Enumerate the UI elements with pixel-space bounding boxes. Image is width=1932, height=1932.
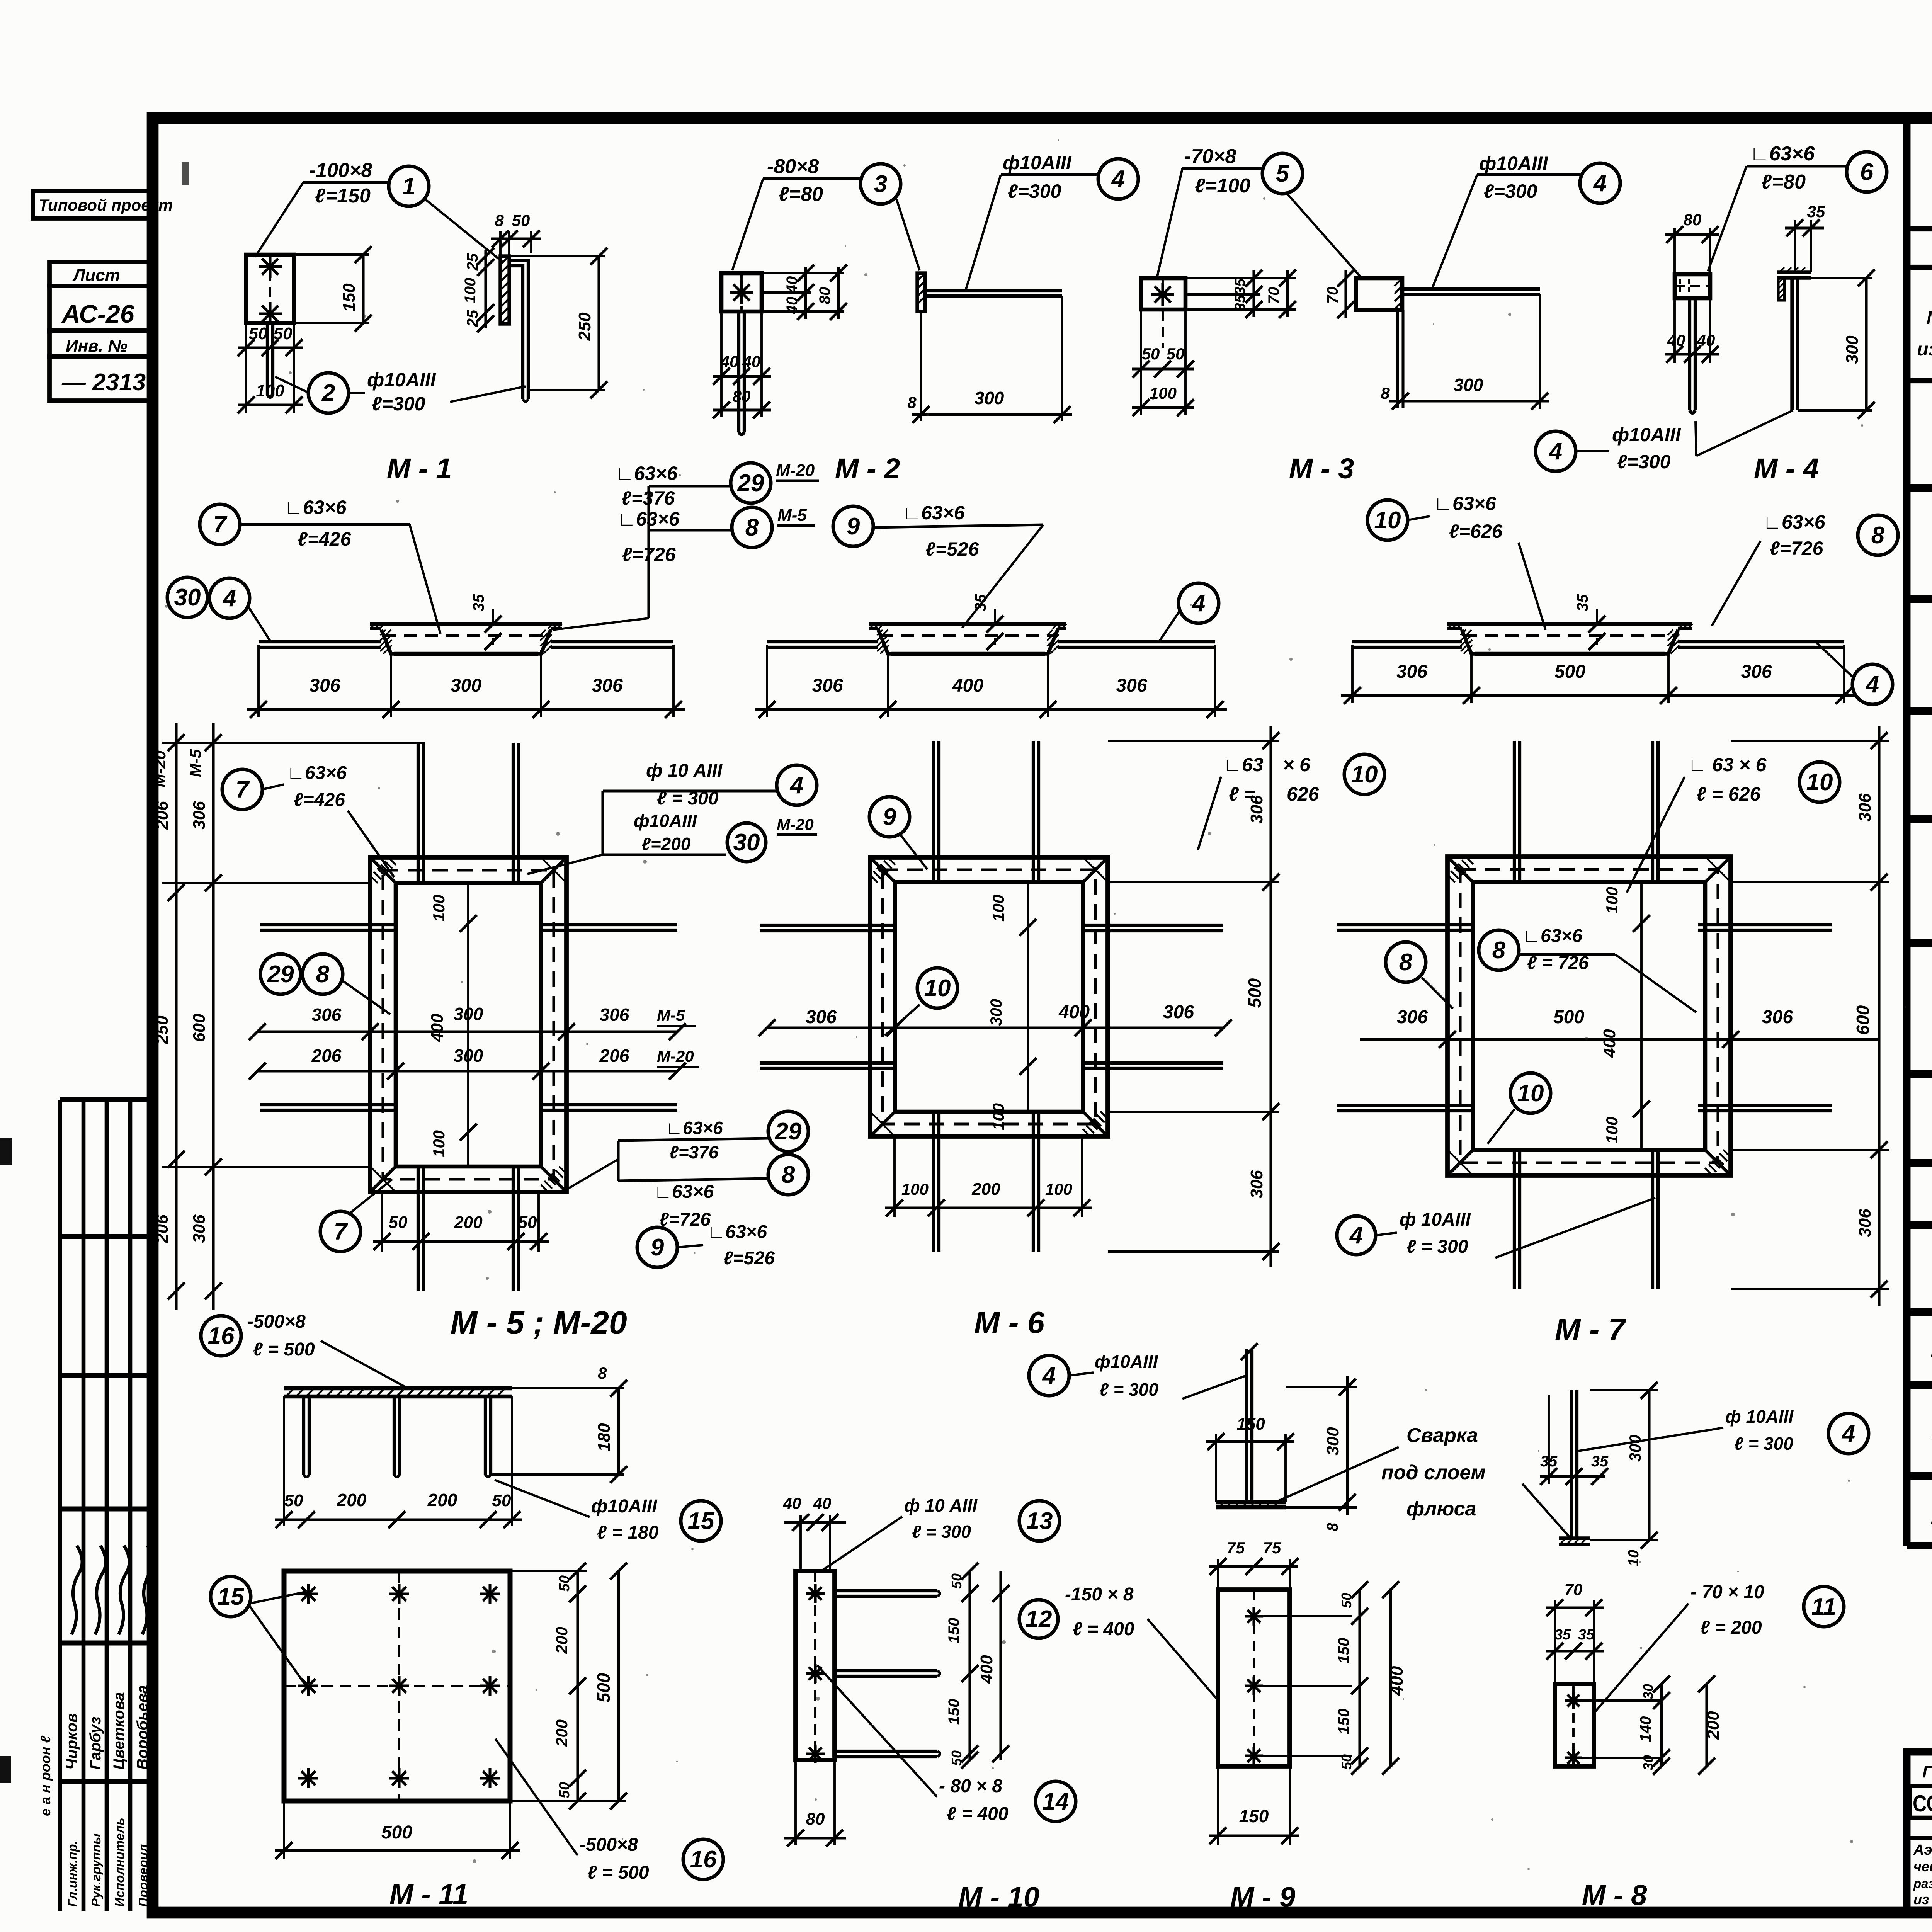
detail M-3 side dims 8 300 [1396, 310, 1399, 408]
svg-text:под слоем: под слоем [1381, 1461, 1486, 1484]
svg-text:600: 600 [190, 1014, 209, 1042]
svg-text:626: 626 [1287, 783, 1320, 805]
svg-text:400: 400 [428, 1014, 447, 1043]
svg-text:600: 600 [1853, 1005, 1873, 1035]
svg-text:200: 200 [454, 1213, 483, 1232]
svg-text:300: 300 [1626, 1435, 1644, 1462]
plan outer rect [870, 857, 1108, 1136]
svg-text:10: 10 [1626, 1550, 1642, 1566]
detail M-2 callout 4 [1098, 159, 1138, 199]
plan dashed mid line [1460, 869, 1718, 1163]
svg-text:200: 200 [1704, 1711, 1723, 1740]
svg-text:9: 9 [651, 1234, 664, 1261]
plan M-6 callout 10 [917, 968, 957, 1008]
section bottom [891, 652, 1045, 656]
svg-text:4: 4 [1349, 1222, 1363, 1249]
section M-7 right callout 4 [1852, 664, 1893, 704]
svg-text:150: 150 [1239, 1806, 1269, 1826]
detail M-11 elevation plate [284, 1386, 512, 1391]
plan inner rect [1473, 882, 1705, 1150]
left margin box Инв № [49, 331, 153, 356]
detail M-11 callout 15 plan [211, 1577, 251, 1617]
svg-text:Воробьева: Воробьева [134, 1685, 151, 1770]
svg-text:Проверил: Проверил [136, 1844, 150, 1907]
svg-text:М - 10: М - 10 [958, 1881, 1039, 1913]
left margin box 2313 [49, 356, 153, 401]
plan M-5 callout 7 bottom [320, 1211, 361, 1252]
svg-text:300: 300 [987, 999, 1005, 1026]
svg-text:50: 50 [284, 1491, 303, 1510]
svg-text:306: 306 [312, 1005, 342, 1025]
svg-text:50: 50 [249, 324, 268, 343]
detail M-11 plan plate [284, 1571, 510, 1801]
svg-text:50: 50 [389, 1213, 408, 1232]
detail M-1 side view anchor [509, 260, 528, 399]
svg-text:35: 35 [1540, 1453, 1558, 1470]
svg-text:500: 500 [381, 1822, 412, 1843]
left margin box Типовой проект [33, 191, 153, 218]
svg-text:8: 8 [1871, 522, 1885, 549]
svg-text:ℓ = 400: ℓ = 400 [1073, 1619, 1134, 1639]
plan M-5 bottom dim 50 200 50 [381, 1192, 383, 1252]
svg-text:М-20: М-20 [777, 815, 814, 833]
plan inner rect [396, 883, 541, 1167]
detail M-9 elevation anchor [1245, 1349, 1248, 1502]
svg-text:5: 5 [1276, 160, 1290, 187]
svg-text:25: 25 [464, 310, 481, 327]
svg-text:300: 300 [1454, 375, 1483, 395]
spec table grid [1903, 118, 1911, 1546]
svg-text:ℓ =: ℓ = [1229, 783, 1255, 805]
plan mitre corners [1447, 857, 1473, 882]
svg-text:ф10АIII: ф10АIII [367, 369, 436, 391]
svg-text:100: 100 [989, 1103, 1007, 1130]
svg-text:306: 306 [1163, 1002, 1194, 1022]
svg-text:400: 400 [1386, 1666, 1406, 1696]
callout 9 L63x6 526 [833, 506, 873, 546]
detail M-11 callout 16 top [201, 1316, 241, 1356]
svg-text:8: 8 [1399, 949, 1413, 976]
section dim line [1351, 645, 1354, 703]
svg-text:40: 40 [1697, 331, 1715, 349]
detail M-4 dim 40 40 [1673, 298, 1676, 363]
plan outer rect [1447, 857, 1731, 1175]
svg-text:50: 50 [518, 1213, 537, 1232]
svg-text:8: 8 [495, 211, 504, 230]
svg-text:-150 × 8: -150 × 8 [1065, 1584, 1134, 1605]
svg-text:300: 300 [451, 675, 481, 696]
svg-text:М-20: М-20 [657, 1047, 694, 1065]
detail M-3 dims right 35 35 70 [1185, 277, 1296, 279]
svg-text:М-20: М-20 [1930, 1505, 1932, 1529]
svg-text:40: 40 [720, 352, 739, 371]
svg-text:ℓ=200: ℓ=200 [641, 834, 691, 854]
svg-text:Марка: Марка [1927, 308, 1932, 328]
svg-text:180: 180 [595, 1423, 614, 1452]
svg-text:25: 25 [464, 253, 481, 271]
svg-text:∟63×6: ∟63×6 [665, 1118, 723, 1138]
detail M-8 plan anchors [1565, 1699, 1582, 1702]
svg-text:150: 150 [946, 1699, 963, 1725]
section mini dim 35 [492, 609, 494, 624]
detail M-8 base plate [1559, 1536, 1590, 1540]
plan mitre corners [370, 857, 396, 883]
section bottom [394, 652, 538, 656]
detail M-2 plate plan [721, 273, 762, 311]
section side walls [878, 630, 892, 654]
svg-text:-500×8: -500×8 [247, 1311, 306, 1332]
svg-text:изделия: изделия [1917, 339, 1932, 360]
svg-text:200: 200 [553, 1719, 571, 1747]
left margin box Лист [49, 262, 153, 286]
section mini dim 35 [1596, 609, 1598, 624]
detail M-10 right dim chain [968, 1571, 971, 1760]
svg-text:306: 306 [1762, 1007, 1793, 1027]
svg-text:50: 50 [1338, 1754, 1354, 1770]
svg-text:100: 100 [989, 895, 1007, 922]
svg-text:ф10АIII: ф10АIII [1095, 1352, 1158, 1372]
svg-text:70: 70 [1265, 287, 1282, 304]
svg-text:100: 100 [430, 895, 448, 922]
section top flange [1447, 622, 1692, 626]
svg-text:8: 8 [1381, 384, 1390, 402]
svg-text:35: 35 [470, 594, 487, 611]
detail M-11 right dim chain [510, 1570, 587, 1572]
svg-text:М - 7: М - 7 [1555, 1312, 1627, 1347]
svg-text:306: 306 [812, 675, 843, 696]
svg-text:10: 10 [924, 975, 951, 1002]
svg-text:206: 206 [153, 801, 172, 830]
svg-text:Аэротенки-смесители: Аэротенки-смесители [1913, 1842, 1932, 1858]
svg-text:8: 8 [745, 514, 759, 541]
svg-text:е а н роон ℓ: е а н роон ℓ [37, 1735, 53, 1816]
svg-text:100: 100 [1603, 1117, 1621, 1144]
svg-text:50: 50 [492, 1491, 511, 1510]
svg-text:80: 80 [1684, 211, 1702, 229]
svg-text:35: 35 [1807, 202, 1825, 221]
plan M-7 right dim chain [1731, 740, 1889, 742]
svg-text:50: 50 [949, 1750, 964, 1766]
detail M-2 dims right 40 40 80 [762, 272, 844, 274]
detail M-2 side view [917, 273, 925, 311]
svg-text:4: 4 [1548, 438, 1562, 465]
svg-text:4: 4 [1865, 671, 1879, 698]
svg-text:75: 75 [1263, 1539, 1281, 1557]
svg-text:1: 1 [402, 173, 415, 200]
svg-text:М-20: М-20 [776, 461, 815, 480]
section dashed line [880, 634, 1056, 637]
svg-text:30: 30 [1640, 1755, 1656, 1770]
svg-text:500: 500 [1554, 662, 1585, 682]
detail M-2 side dims [920, 311, 922, 421]
signature squiggles rotated [71, 1546, 82, 1634]
svg-text:206: 206 [599, 1046, 629, 1066]
svg-text:- 70 × 10: - 70 × 10 [1690, 1582, 1764, 1602]
detail M-11 plan anchors [298, 1592, 318, 1595]
svg-text:400: 400 [1600, 1029, 1619, 1058]
svg-text:Лист: Лист [72, 266, 120, 285]
svg-text:8: 8 [782, 1162, 795, 1188]
svg-text:30: 30 [1640, 1684, 1656, 1699]
svg-text:70: 70 [1324, 287, 1341, 304]
svg-text:ℓ=526: ℓ=526 [925, 538, 980, 560]
svg-text:2: 2 [321, 380, 335, 406]
svg-text:∟63×6: ∟63×6 [707, 1222, 767, 1242]
plan M-6 callout 9 [869, 797, 910, 837]
svg-text:7: 7 [236, 776, 250, 803]
svg-text:200: 200 [337, 1490, 367, 1510]
detail M-9 dim 300 8 [1286, 1386, 1357, 1388]
svg-text:50: 50 [1167, 345, 1185, 363]
detail M-8 plan plate [1555, 1684, 1594, 1766]
section anchors [1352, 640, 1462, 643]
svg-text:306: 306 [309, 675, 340, 696]
svg-text:4: 4 [1191, 590, 1205, 617]
left margin box АС-26 [49, 286, 153, 331]
svg-text:Госстрой: Госстрой [1922, 1762, 1932, 1781]
plan M-7 callout 10 [1510, 1073, 1551, 1113]
detail M-1 anchor bar [266, 323, 269, 395]
svg-text:7: 7 [334, 1218, 348, 1245]
svg-text:306: 306 [1741, 662, 1772, 682]
svg-text:306: 306 [1855, 1209, 1874, 1237]
svg-text:ℓ = 300: ℓ = 300 [1099, 1379, 1158, 1400]
svg-text:ф 10АIII: ф 10АIII [1725, 1406, 1794, 1427]
detail M-10 bottom dim 80 [794, 1760, 797, 1845]
svg-text:-500×8: -500×8 [580, 1835, 638, 1855]
svg-text:ℓ=300: ℓ=300 [372, 393, 425, 415]
svg-text:35: 35 [1232, 278, 1248, 295]
svg-text:500: 500 [594, 1673, 614, 1702]
plan M-6 anchors [932, 741, 935, 882]
svg-text:Гл.инж.пр.: Гл.инж.пр. [65, 1840, 80, 1907]
svg-text:14: 14 [1043, 1788, 1069, 1815]
svg-text:-80×8: -80×8 [767, 155, 819, 178]
svg-text:9: 9 [883, 804, 896, 830]
svg-text:ℓ = 300: ℓ = 300 [912, 1522, 971, 1542]
detail M-3 plate plan [1141, 278, 1185, 310]
svg-text:Типовой проект: Типовой проект [39, 196, 173, 214]
svg-text:ℓ=300: ℓ=300 [1617, 451, 1671, 473]
svg-text:70: 70 [1565, 1580, 1583, 1599]
svg-text:40: 40 [742, 352, 761, 371]
detail M-11 dim 180 [512, 1387, 624, 1389]
svg-text:10: 10 [1517, 1080, 1544, 1107]
plan M-7 anchors [1513, 741, 1516, 882]
svg-text:4: 4 [1841, 1420, 1855, 1447]
svg-text:ℓ=426: ℓ=426 [294, 790, 345, 810]
svg-text:ф 10 АIII: ф 10 АIII [904, 1495, 978, 1515]
svg-text:М - 3: М - 3 [1289, 452, 1354, 485]
detail M-1 callout 2 [308, 373, 349, 413]
svg-text:4: 4 [222, 585, 236, 612]
detail M-1 side dims 25 100 25 [484, 250, 487, 328]
svg-text:35: 35 [972, 594, 989, 611]
svg-text:4: 4 [1593, 170, 1607, 197]
svg-text:Гарбуз: Гарбуз [87, 1716, 104, 1770]
svg-text:-70×8: -70×8 [1184, 145, 1236, 168]
svg-text:200: 200 [553, 1627, 571, 1654]
svg-text:ℓ=426: ℓ=426 [298, 528, 352, 550]
svg-text:четырехкоридорные с: четырехкоридорные с [1913, 1859, 1932, 1874]
plan M-5 anchors top [417, 743, 420, 883]
svg-text:306: 306 [1397, 1007, 1428, 1027]
detail M-9 right dim chain [1358, 1590, 1361, 1766]
detail M-8 callout 4 [1828, 1413, 1869, 1454]
plan M-5 left dim chains [162, 742, 425, 744]
detail M-11 bottom dim 500 [283, 1801, 285, 1859]
detail M-8 dims top 70 35 35 [1554, 1600, 1556, 1684]
svg-text:ℓ = 500: ℓ = 500 [587, 1862, 649, 1883]
svg-text:306: 306 [1396, 662, 1427, 682]
svg-text:М-20: М-20 [151, 750, 169, 787]
svg-text:ℓ=80: ℓ=80 [1761, 171, 1806, 193]
detail M-9 bottom dim 150 [1217, 1766, 1219, 1845]
svg-text:ℓ = 200: ℓ = 200 [1700, 1617, 1762, 1638]
svg-text:7: 7 [213, 511, 228, 538]
svg-text:М-10: М-10 [1930, 1337, 1932, 1362]
svg-text:∟63×6: ∟63×6 [287, 763, 347, 783]
plan M-7 callout 8 mid [1479, 930, 1519, 970]
svg-text:СОЮЗВОДОКАНАЛПРОЕКТ: СОЮЗВОДОКАНАЛПРОЕКТ [1913, 1791, 1932, 1816]
svg-text:ф10АIII: ф10АIII [634, 811, 697, 831]
svg-text:400: 400 [1058, 1002, 1090, 1022]
section dim line [766, 645, 768, 717]
svg-text:206: 206 [153, 1214, 172, 1243]
svg-text:ℓ=726: ℓ=726 [1770, 537, 1824, 559]
detail M-1 side view plate [500, 256, 509, 324]
svg-text:ℓ = 300: ℓ = 300 [1734, 1434, 1793, 1454]
svg-text:40: 40 [1667, 331, 1685, 349]
svg-text:ℓ = 300: ℓ = 300 [1406, 1236, 1468, 1257]
plan M-5 callout 29 8 left [260, 954, 301, 994]
section dashed line [1464, 634, 1676, 637]
svg-text:М - 9: М - 9 [1230, 1881, 1296, 1913]
svg-text:250: 250 [575, 312, 594, 341]
plan M-7 bottom callout 4 [1337, 1216, 1376, 1255]
svg-text:М - 11: М - 11 [389, 1878, 468, 1910]
detail M-4 dim 35 [1794, 220, 1796, 272]
svg-text:250: 250 [153, 1015, 172, 1044]
detail M-4 plan view [1675, 274, 1710, 298]
svg-text:35: 35 [1574, 594, 1591, 611]
svg-text:4: 4 [789, 772, 803, 799]
svg-text:35: 35 [1591, 1453, 1609, 1470]
svg-text:100: 100 [462, 278, 479, 304]
svg-text:ф 10АIII: ф 10АIII [1400, 1209, 1471, 1230]
svg-text:29: 29 [267, 961, 294, 988]
svg-text:∟ 63 × 6: ∟ 63 × 6 [1688, 754, 1767, 776]
plan mitre corners [870, 857, 895, 882]
svg-text:М - 2: М - 2 [835, 452, 900, 485]
svg-text:ф10АIII: ф10АIII [1479, 153, 1548, 174]
svg-text:306: 306 [592, 675, 622, 696]
svg-text:400: 400 [952, 675, 983, 696]
svg-text:10: 10 [1806, 769, 1833, 796]
detail M-4 callout 6 [1847, 152, 1887, 192]
svg-text:из сборного железобетона.: из сборного железобетона. [1913, 1891, 1932, 1907]
svg-text:ℓ=80: ℓ=80 [779, 183, 823, 206]
detail M-4 side view angle [1777, 270, 1811, 274]
svg-text:М - 8: М - 8 [1582, 1879, 1647, 1911]
section anchors [767, 640, 878, 643]
svg-text:Исполнитель: Исполнитель [112, 1818, 127, 1907]
svg-text:400: 400 [977, 1655, 996, 1684]
detail M-4 dim 300 [1811, 277, 1872, 279]
svg-text:Рук.группы: Рук.группы [89, 1833, 103, 1907]
svg-text:140: 140 [1637, 1716, 1654, 1742]
svg-text:М-5: М-5 [657, 1006, 685, 1024]
plan M-5 bottom callout 9 [637, 1227, 677, 1267]
svg-text:100: 100 [901, 1180, 929, 1198]
svg-text:35: 35 [1578, 1627, 1595, 1643]
svg-text:ℓ = 180: ℓ = 180 [597, 1522, 659, 1543]
svg-text:30: 30 [174, 584, 201, 611]
plan dashed mid line [883, 870, 1095, 1124]
svg-text:ф10АIII: ф10АIII [591, 1496, 658, 1517]
svg-text:∟63×6: ∟63×6 [615, 463, 678, 484]
detail M-9 callout 4 top [1029, 1355, 1069, 1396]
detail M-4 anchor bar [1688, 298, 1691, 410]
svg-text:АС-26: АС-26 [61, 299, 135, 328]
svg-text:× 6: × 6 [1283, 754, 1311, 776]
svg-text:80: 80 [733, 387, 751, 405]
svg-text:-100×8: -100×8 [309, 159, 372, 182]
detail M-10 anchors [835, 1589, 937, 1592]
svg-text:Цветкова: Цветкова [111, 1692, 128, 1770]
svg-text:50: 50 [1338, 1593, 1354, 1608]
detail M-1 side dim 250 [509, 255, 605, 257]
detail M-3 callout 5 [1262, 153, 1303, 194]
svg-text:ℓ = 726: ℓ = 726 [1527, 953, 1589, 973]
svg-text:100: 100 [1603, 887, 1621, 914]
svg-text:50: 50 [1142, 345, 1160, 363]
detail M-9 plan plate [1218, 1590, 1290, 1766]
svg-text:50: 50 [556, 1575, 573, 1592]
detail M-9 dim 150 top [1215, 1434, 1217, 1502]
svg-text:306: 306 [600, 1005, 629, 1025]
svg-text:М - 4: М - 4 [1754, 452, 1819, 485]
scan edge marks [0, 1138, 12, 1165]
svg-text:306: 306 [1116, 675, 1147, 696]
plan M-6 right dim chain [1108, 740, 1279, 742]
svg-text:∟63×6: ∟63×6 [1434, 493, 1497, 514]
plan M-5 anchors bottom [417, 1167, 420, 1291]
detail M-10 top dim 40 40 [799, 1515, 802, 1571]
detail M-11 elevation legs [302, 1396, 305, 1475]
section M-5 callouts 30 4 [167, 577, 207, 617]
svg-text:11: 11 [1811, 1594, 1836, 1620]
svg-text:флюса: флюса [1406, 1498, 1476, 1520]
svg-text:300: 300 [1843, 335, 1862, 364]
svg-text:6: 6 [1860, 159, 1874, 185]
svg-text:8: 8 [1492, 937, 1506, 964]
svg-text:ф 10 АIII: ф 10 АIII [646, 760, 723, 781]
section M-7 left callout 10 [1367, 500, 1408, 540]
svg-text:ℓ=626: ℓ=626 [1449, 520, 1503, 542]
svg-text:50: 50 [949, 1573, 964, 1589]
svg-text:30: 30 [733, 829, 760, 856]
svg-text:М-5: М-5 [777, 506, 807, 525]
svg-text:ф10АIII: ф10АIII [1003, 152, 1072, 173]
svg-text:306: 306 [806, 1007, 837, 1027]
svg-text:ℓ=150: ℓ=150 [315, 185, 371, 207]
svg-text:ℓ=300: ℓ=300 [1008, 180, 1061, 202]
svg-text:16: 16 [208, 1323, 235, 1349]
detail M-1 callout 1 [389, 166, 429, 206]
svg-text:35: 35 [1554, 1627, 1571, 1643]
detail M-9 dim 75 75 [1217, 1559, 1219, 1590]
